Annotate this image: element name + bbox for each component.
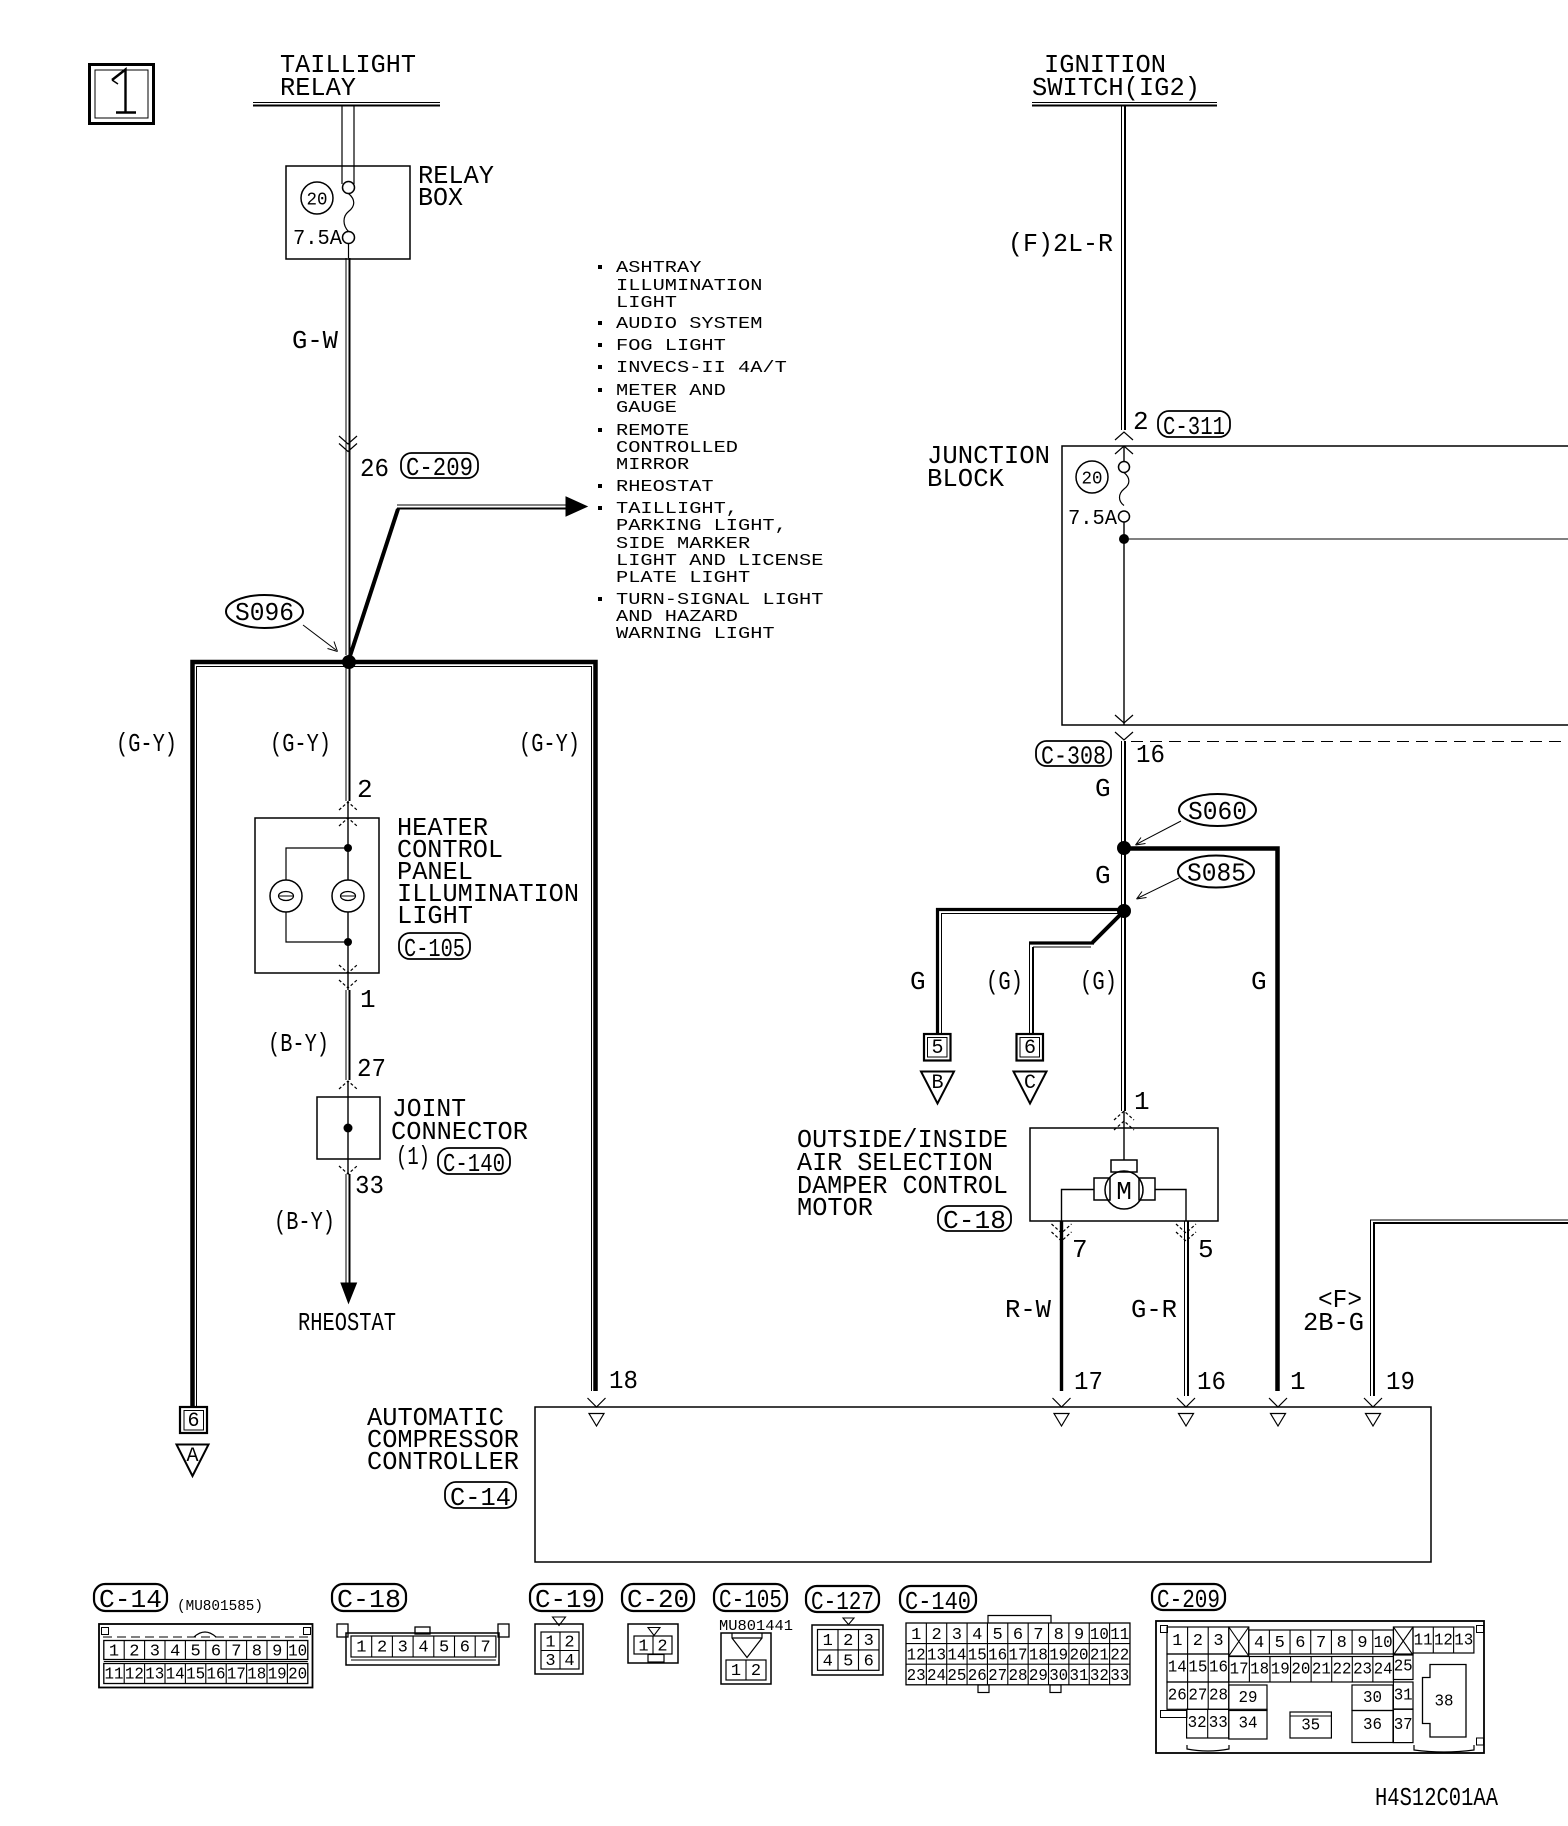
- svg-text:9: 9: [1357, 1634, 1367, 1653]
- svg-text:24: 24: [927, 1667, 946, 1686]
- svg-text:6: 6: [187, 1410, 199, 1433]
- svg-text:20: 20: [288, 1666, 307, 1685]
- svg-text:5: 5: [843, 1652, 853, 1671]
- svg-text:(B-Y): (B-Y): [268, 1029, 329, 1059]
- svg-text:3: 3: [864, 1632, 874, 1651]
- svg-text:AUDIO SYSTEM: AUDIO SYSTEM: [616, 315, 762, 334]
- svg-text:7: 7: [1033, 1626, 1043, 1645]
- svg-text:21: 21: [1312, 1661, 1331, 1680]
- svg-text:C-140: C-140: [443, 1149, 505, 1179]
- svg-text:7: 7: [480, 1639, 490, 1658]
- svg-text:37: 37: [1394, 1716, 1413, 1735]
- svg-text:19: 19: [1049, 1646, 1068, 1665]
- svg-text:G: G: [1251, 967, 1267, 997]
- svg-text:(MU801585): (MU801585): [177, 1598, 263, 1615]
- svg-text:38: 38: [1435, 1693, 1454, 1712]
- svg-text:16: 16: [1209, 1659, 1228, 1678]
- svg-text:7: 7: [1072, 1235, 1088, 1265]
- svg-text:27: 27: [988, 1667, 1007, 1686]
- svg-text:30: 30: [1049, 1667, 1068, 1686]
- svg-text:28: 28: [1008, 1667, 1027, 1686]
- svg-text:19: 19: [1386, 1367, 1415, 1397]
- svg-text:6: 6: [460, 1639, 470, 1658]
- svg-text:16: 16: [1136, 740, 1165, 770]
- svg-text:23: 23: [907, 1667, 926, 1686]
- svg-text:27: 27: [357, 1054, 386, 1084]
- svg-text:1: 1: [1290, 1367, 1306, 1397]
- svg-text:2: 2: [377, 1639, 387, 1658]
- svg-text:3: 3: [952, 1626, 962, 1645]
- svg-text:G: G: [1095, 774, 1111, 804]
- svg-text:BLOCK: BLOCK: [927, 464, 1004, 494]
- svg-text:(G-Y): (G-Y): [270, 729, 331, 759]
- svg-text:(G-Y): (G-Y): [519, 729, 580, 759]
- svg-text:2: 2: [1193, 1632, 1203, 1651]
- svg-text:26: 26: [360, 454, 389, 484]
- svg-text:1: 1: [1134, 1087, 1150, 1117]
- svg-text:1: 1: [823, 1632, 833, 1651]
- svg-text:7: 7: [231, 1643, 241, 1662]
- svg-text:G: G: [910, 967, 926, 997]
- svg-text:C-19: C-19: [535, 1585, 597, 1615]
- svg-text:BOX: BOX: [418, 183, 463, 213]
- svg-text:C-105: C-105: [719, 1585, 782, 1615]
- svg-text:1: 1: [911, 1626, 921, 1645]
- svg-text:2: 2: [564, 1634, 574, 1653]
- svg-text:31: 31: [1070, 1667, 1089, 1686]
- svg-text:(G-Y): (G-Y): [116, 729, 177, 759]
- svg-text:1: 1: [545, 1634, 555, 1653]
- svg-text:(F)2L-R: (F)2L-R: [1008, 229, 1113, 259]
- svg-text:4: 4: [972, 1626, 982, 1645]
- svg-text:6: 6: [1013, 1626, 1023, 1645]
- svg-text:27: 27: [1188, 1687, 1207, 1706]
- svg-text:SWITCH(IG2): SWITCH(IG2): [1032, 73, 1200, 103]
- svg-text:13: 13: [145, 1666, 164, 1685]
- svg-text:30: 30: [1363, 1689, 1382, 1708]
- svg-text:35: 35: [1301, 1717, 1320, 1736]
- svg-text:34: 34: [1239, 1715, 1258, 1734]
- svg-text:8: 8: [1337, 1634, 1347, 1653]
- svg-text:12: 12: [907, 1646, 926, 1665]
- svg-text:7: 7: [1316, 1634, 1326, 1653]
- svg-text:15: 15: [186, 1666, 205, 1685]
- svg-text:C-308: C-308: [1041, 741, 1106, 771]
- svg-text:17: 17: [1230, 1661, 1249, 1680]
- svg-text:31: 31: [1394, 1687, 1413, 1706]
- svg-text:C-209: C-209: [406, 453, 473, 483]
- svg-text:FOG LIGHT: FOG LIGHT: [616, 337, 726, 356]
- svg-text:13: 13: [1454, 1632, 1473, 1651]
- svg-text:32: 32: [1188, 1714, 1207, 1733]
- svg-text:21: 21: [1090, 1646, 1109, 1665]
- svg-text:6: 6: [1295, 1634, 1305, 1653]
- svg-text:8: 8: [252, 1643, 262, 1662]
- svg-text:16: 16: [1197, 1367, 1226, 1397]
- svg-text:S096: S096: [235, 598, 294, 628]
- svg-text:7.5A: 7.5A: [293, 228, 342, 251]
- svg-text:3: 3: [1213, 1632, 1223, 1651]
- svg-text:14: 14: [947, 1646, 966, 1665]
- svg-text:1: 1: [109, 1643, 119, 1662]
- svg-text:C-20: C-20: [627, 1585, 689, 1615]
- svg-text:RELAY: RELAY: [280, 73, 356, 103]
- svg-text:5: 5: [190, 1643, 200, 1662]
- svg-text:14: 14: [1168, 1659, 1187, 1678]
- svg-text:19: 19: [1271, 1661, 1290, 1680]
- svg-text:36: 36: [1363, 1716, 1382, 1735]
- svg-text:C-14: C-14: [99, 1585, 162, 1615]
- svg-text:11: 11: [1110, 1626, 1129, 1645]
- svg-text:2B-G: 2B-G: [1303, 1308, 1364, 1338]
- svg-text:4: 4: [1254, 1634, 1264, 1653]
- svg-text:3: 3: [398, 1639, 408, 1658]
- svg-text:1: 1: [731, 1662, 741, 1681]
- svg-text:1: 1: [360, 985, 376, 1015]
- svg-text:PARKING LIGHT,: PARKING LIGHT,: [616, 517, 787, 536]
- svg-text:MIRROR: MIRROR: [616, 456, 689, 475]
- svg-text:A: A: [186, 1445, 198, 1468]
- svg-text:22: 22: [1110, 1646, 1129, 1665]
- svg-text:2: 2: [751, 1662, 761, 1681]
- svg-text:C-209: C-209: [1157, 1585, 1220, 1615]
- svg-text:H4S12C01AA: H4S12C01AA: [1375, 1783, 1498, 1813]
- svg-text:(B-Y): (B-Y): [274, 1207, 335, 1237]
- svg-text:8: 8: [1054, 1626, 1064, 1645]
- svg-text:25: 25: [947, 1667, 966, 1686]
- svg-text:10: 10: [1374, 1634, 1393, 1653]
- svg-text:6: 6: [864, 1652, 874, 1671]
- svg-text:32: 32: [1090, 1667, 1109, 1686]
- svg-text:18: 18: [609, 1366, 638, 1396]
- svg-text:25: 25: [1394, 1658, 1413, 1677]
- svg-text:15: 15: [968, 1646, 987, 1665]
- svg-text:18: 18: [1029, 1646, 1048, 1665]
- svg-text:1: 1: [1172, 1632, 1182, 1651]
- svg-text:2: 2: [931, 1626, 941, 1645]
- svg-text:22: 22: [1332, 1661, 1351, 1680]
- svg-text:R-W: R-W: [1005, 1295, 1051, 1325]
- svg-text:20: 20: [1291, 1661, 1310, 1680]
- svg-text:9: 9: [272, 1643, 282, 1662]
- svg-text:ASHTRAY: ASHTRAY: [616, 259, 701, 278]
- svg-text:C-140: C-140: [905, 1587, 971, 1617]
- svg-text:18: 18: [247, 1666, 266, 1685]
- svg-text:20: 20: [307, 190, 328, 210]
- svg-text:6: 6: [1024, 1037, 1036, 1060]
- svg-text:33: 33: [1209, 1714, 1228, 1733]
- svg-text:5: 5: [439, 1639, 449, 1658]
- svg-text:4: 4: [418, 1639, 428, 1658]
- svg-text:4: 4: [170, 1643, 180, 1662]
- svg-text:GAUGE: GAUGE: [616, 399, 677, 418]
- svg-text:23: 23: [1353, 1661, 1372, 1680]
- svg-text:12: 12: [1434, 1632, 1453, 1651]
- svg-text:28: 28: [1209, 1687, 1228, 1706]
- svg-text:C-18: C-18: [337, 1585, 401, 1615]
- svg-text:10: 10: [288, 1643, 307, 1662]
- svg-text:RHEOSTAT: RHEOSTAT: [616, 478, 714, 497]
- svg-text:29: 29: [1029, 1667, 1048, 1686]
- svg-text:19: 19: [268, 1666, 287, 1685]
- svg-text:2: 2: [843, 1632, 853, 1651]
- svg-text:C-18: C-18: [943, 1206, 1006, 1236]
- svg-text:G-R: G-R: [1131, 1295, 1177, 1325]
- svg-text:18: 18: [1250, 1661, 1269, 1680]
- svg-text:5: 5: [1198, 1235, 1214, 1265]
- svg-text:C-105: C-105: [404, 934, 465, 964]
- svg-text:16: 16: [988, 1646, 1007, 1665]
- svg-text:5: 5: [931, 1037, 943, 1060]
- svg-text:2: 2: [357, 775, 373, 805]
- svg-text:7.5A: 7.5A: [1068, 508, 1117, 531]
- svg-text:C: C: [1024, 1072, 1036, 1095]
- svg-text:6: 6: [211, 1643, 221, 1662]
- svg-text:M: M: [1116, 1177, 1132, 1207]
- svg-text:PLATE LIGHT: PLATE LIGHT: [616, 569, 750, 588]
- svg-text:33: 33: [355, 1171, 384, 1201]
- svg-text:S085: S085: [1187, 859, 1246, 889]
- svg-text:(G): (G): [1080, 967, 1117, 997]
- svg-text:15: 15: [1188, 1659, 1207, 1678]
- svg-text:26: 26: [968, 1667, 987, 1686]
- svg-text:(1): (1): [396, 1142, 430, 1172]
- svg-text:5: 5: [993, 1626, 1003, 1645]
- svg-text:26: 26: [1168, 1687, 1187, 1706]
- svg-text:(G): (G): [986, 967, 1023, 997]
- svg-text:2: 2: [129, 1643, 139, 1662]
- svg-text:5: 5: [1275, 1634, 1285, 1653]
- svg-text:3: 3: [150, 1643, 160, 1662]
- svg-text:G: G: [1095, 861, 1111, 891]
- svg-text:S060: S060: [1188, 797, 1247, 827]
- svg-text:33: 33: [1110, 1667, 1129, 1686]
- svg-text:16: 16: [207, 1666, 226, 1685]
- svg-text:2: 2: [657, 1638, 667, 1657]
- svg-text:20: 20: [1070, 1646, 1089, 1665]
- svg-text:RHEOSTAT: RHEOSTAT: [298, 1308, 396, 1338]
- svg-text:2: 2: [1133, 407, 1149, 437]
- svg-text:B: B: [931, 1072, 943, 1095]
- svg-text:4: 4: [823, 1652, 833, 1671]
- svg-text:WARNING LIGHT: WARNING LIGHT: [616, 625, 775, 644]
- svg-text:17: 17: [227, 1666, 246, 1685]
- svg-text:C-311: C-311: [1163, 412, 1225, 442]
- svg-text:24: 24: [1374, 1661, 1393, 1680]
- svg-text:LIGHT: LIGHT: [616, 294, 677, 313]
- svg-text:INVECS-II 4A/T: INVECS-II 4A/T: [616, 359, 787, 378]
- svg-text:11: 11: [105, 1666, 124, 1685]
- svg-text:1: 1: [356, 1639, 366, 1658]
- svg-text:10: 10: [1090, 1626, 1109, 1645]
- svg-text:20: 20: [1082, 469, 1103, 489]
- svg-text:11: 11: [1414, 1632, 1433, 1651]
- svg-text:LIGHT: LIGHT: [397, 901, 473, 931]
- svg-text:1: 1: [638, 1638, 648, 1657]
- svg-text:13: 13: [927, 1646, 946, 1665]
- svg-text:29: 29: [1239, 1689, 1258, 1708]
- svg-text:17: 17: [1074, 1367, 1103, 1397]
- svg-text:CONTROLLER: CONTROLLER: [367, 1447, 519, 1477]
- svg-text:17: 17: [1008, 1646, 1027, 1665]
- svg-text:3: 3: [545, 1652, 555, 1671]
- svg-text:C-127: C-127: [811, 1587, 874, 1617]
- svg-text:4: 4: [564, 1652, 574, 1671]
- svg-text:G-W: G-W: [292, 326, 338, 356]
- svg-text:9: 9: [1074, 1626, 1084, 1645]
- svg-text:MOTOR: MOTOR: [797, 1193, 873, 1223]
- svg-text:12: 12: [125, 1666, 144, 1685]
- svg-text:14: 14: [166, 1666, 185, 1685]
- svg-text:C-14: C-14: [450, 1483, 511, 1513]
